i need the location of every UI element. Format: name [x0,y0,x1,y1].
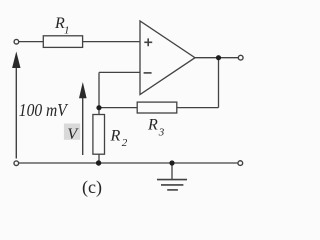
svg-text:2: 2 [122,137,128,149]
svg-text:(c): (c) [82,177,102,198]
svg-text:R: R [147,117,158,134]
svg-text:3: 3 [158,127,165,139]
svg-text:100 mV: 100 mV [19,100,69,120]
svg-text:1: 1 [64,25,70,37]
svg-text:R: R [110,128,121,145]
